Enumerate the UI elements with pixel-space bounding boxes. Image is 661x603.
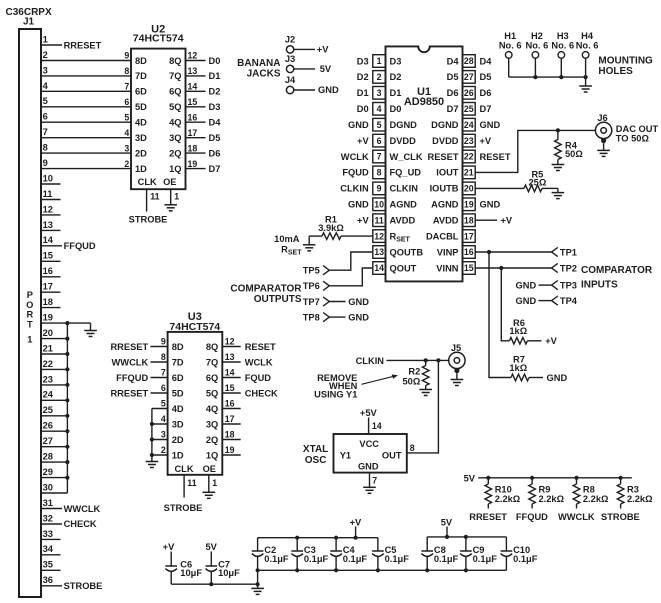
svg-text:D1: D1 (390, 88, 402, 98)
svg-text:AGND: AGND (431, 200, 459, 210)
svg-text:15: 15 (188, 97, 198, 107)
svg-text:5D: 5D (135, 102, 147, 112)
svg-text:5: 5 (377, 120, 382, 130)
svg-text:MOUNTING: MOUNTING (598, 55, 653, 66)
wire Y1 OUT pin 8 to CLKIN (407, 360, 439, 453)
svg-text:4Q: 4Q (169, 118, 181, 128)
svg-text:1kΩ: 1kΩ (509, 363, 527, 373)
svg-text:7: 7 (372, 475, 377, 485)
svg-text:AGND: AGND (390, 200, 418, 210)
svg-text:D7: D7 (480, 104, 492, 114)
svg-text:8: 8 (43, 143, 48, 153)
svg-text:10μF: 10μF (180, 568, 202, 578)
svg-text:7D: 7D (135, 71, 147, 81)
svg-text:GND: GND (348, 313, 369, 323)
net label 5V (J3) (320, 64, 332, 74)
svg-text:18: 18 (43, 297, 53, 307)
svg-text:15: 15 (464, 263, 474, 273)
svg-text:1: 1 (377, 56, 382, 66)
svg-text:6: 6 (124, 97, 129, 107)
svg-text:RRESET: RRESET (469, 512, 507, 522)
svg-text:28: 28 (464, 56, 474, 66)
net label CHECK (J1 pin 32) (64, 519, 97, 529)
svg-text:14: 14 (43, 235, 54, 245)
svg-text:0.1μF: 0.1μF (343, 554, 368, 564)
svg-text:WCLK: WCLK (341, 152, 369, 162)
svg-text:D6: D6 (209, 148, 221, 158)
test point TP4 (516, 296, 578, 306)
svg-text:12: 12 (225, 337, 235, 347)
svg-text:2D: 2D (135, 148, 147, 158)
U3 pin 1 OE stub (209, 475, 217, 493)
U2 internal pin names (135, 56, 182, 187)
svg-text:15: 15 (225, 383, 235, 393)
svg-text:D5: D5 (209, 133, 221, 143)
capacitor C7 10uF (206, 552, 241, 585)
svg-text:14: 14 (372, 421, 382, 431)
svg-text:DGND: DGND (390, 120, 418, 130)
svg-text:0.1μF: 0.1μF (385, 554, 410, 564)
svg-text:J3: J3 (285, 54, 295, 64)
svg-text:10μF: 10μF (218, 568, 240, 578)
U2 input pin numbers 9-2 (124, 51, 129, 169)
svg-text:DVDD: DVDD (432, 136, 459, 146)
resistor R4 50ohm (555, 130, 584, 164)
U1 internal pin names (390, 56, 460, 273)
U2 74HCT574 body (131, 49, 186, 190)
svg-text:7: 7 (161, 368, 166, 378)
svg-text:0.1μF: 0.1μF (264, 554, 289, 564)
wire ground bus J1 pins 19-30 (41, 321, 70, 493)
svg-text:21: 21 (464, 168, 474, 178)
svg-text:3D: 3D (172, 419, 184, 429)
net label RESET (U3) (245, 342, 276, 352)
svg-text:13: 13 (374, 247, 384, 257)
svg-text:19: 19 (225, 445, 235, 455)
svg-text:2: 2 (161, 445, 166, 455)
svg-text:RRESET: RRESET (110, 388, 148, 398)
svg-text:CLK: CLK (138, 177, 157, 187)
svg-text:GND: GND (348, 297, 369, 307)
ground (bypass caps) (251, 584, 264, 594)
ground (mounting holes) (579, 77, 592, 92)
svg-text:10mA: 10mA (274, 234, 300, 244)
svg-text:TP7: TP7 (303, 297, 320, 307)
svg-text:3Q: 3Q (206, 419, 218, 429)
svg-text:D7: D7 (209, 164, 221, 174)
capacitor C6 10uF (165, 552, 202, 585)
svg-text:4D: 4D (172, 404, 184, 414)
net label GND (U1 pin 24) (480, 120, 501, 130)
svg-text:GND: GND (547, 373, 568, 383)
net label +V (J2) (317, 45, 329, 55)
svg-text:3: 3 (377, 88, 382, 98)
section label BANANA JACKS (237, 58, 281, 80)
svg-text:6: 6 (161, 383, 166, 393)
svg-text:XTAL: XTAL (303, 444, 328, 455)
svg-text:0.1μF: 0.1μF (473, 554, 498, 564)
svg-text:VINN: VINN (436, 263, 458, 273)
svg-text:+V: +V (545, 336, 557, 346)
svg-text:16: 16 (225, 399, 235, 409)
svg-text:3: 3 (43, 65, 48, 75)
U2 pin 11 CLK stub (147, 189, 160, 211)
svg-text:34: 34 (43, 544, 54, 554)
svg-text:WCLK: WCLK (245, 357, 273, 367)
net label RRESET (R10) (469, 512, 507, 522)
resistor R6 1k to +V (501, 268, 557, 346)
net label WWCLK (R8) (558, 512, 595, 522)
svg-text:TP5: TP5 (303, 266, 320, 276)
svg-text:DVDD: DVDD (390, 136, 417, 146)
svg-text:FFQUD: FFQUD (64, 241, 96, 251)
wire CLKIN to J5 (387, 358, 449, 362)
net label GND (J4) (318, 85, 339, 95)
resistor R8 2.2k (573, 478, 609, 509)
svg-text:10: 10 (43, 173, 53, 183)
svg-text:VCC: VCC (359, 439, 379, 449)
capacitor C8 0.1uF (421, 537, 458, 570)
svg-text:18: 18 (225, 430, 235, 440)
svg-text:No. 6: No. 6 (551, 40, 574, 50)
section label MOUNTING HOLES (598, 55, 653, 77)
svg-text:W_CLK: W_CLK (390, 152, 423, 162)
svg-text:11: 11 (43, 189, 53, 199)
svg-text:D2: D2 (357, 72, 369, 82)
svg-text:RRESET: RRESET (64, 40, 102, 50)
wires U3 inputs RRESET WWCLK FFQUD RRESET (110, 342, 167, 399)
svg-text:14: 14 (188, 82, 198, 92)
svg-text:3D: 3D (135, 133, 147, 143)
svg-text:CLKIN: CLKIN (340, 184, 369, 194)
svg-text:+5V: +5V (360, 408, 378, 418)
svg-text:CLKIN: CLKIN (390, 184, 419, 194)
net label FFQUD (R9) (516, 512, 548, 522)
svg-text:+V: +V (357, 216, 369, 226)
svg-text:12: 12 (188, 51, 198, 61)
svg-text:GND: GND (480, 120, 501, 130)
svg-text:15: 15 (43, 251, 53, 261)
svg-text:D5: D5 (447, 72, 459, 82)
svg-text:6: 6 (377, 136, 382, 146)
wire mounting hole bus (509, 75, 588, 79)
svg-text:6D: 6D (172, 373, 184, 383)
svg-text:36: 36 (43, 575, 53, 585)
svg-text:J2: J2 (285, 34, 295, 44)
svg-text:TO 50Ω: TO 50Ω (616, 133, 650, 143)
svg-text:CLK: CLK (174, 464, 193, 474)
svg-text:OE: OE (203, 464, 216, 474)
svg-text:18: 18 (464, 215, 474, 225)
svg-text:FFQUD: FFQUD (116, 373, 148, 383)
svg-text:1D: 1D (172, 450, 184, 460)
svg-text:23: 23 (464, 136, 474, 146)
svg-text:5D: 5D (172, 388, 184, 398)
ground (J5) (451, 373, 464, 385)
svg-text:2Q: 2Q (206, 435, 218, 445)
svg-text:33: 33 (43, 529, 53, 539)
wire +V top rail (258, 527, 378, 540)
svg-text:16: 16 (464, 247, 474, 257)
svg-text:13: 13 (225, 352, 235, 362)
svg-text:8Q: 8Q (206, 342, 218, 352)
svg-text:R: R (26, 310, 33, 320)
net label +V (C2-C5 rail) (350, 517, 362, 527)
svg-text:2: 2 (43, 50, 48, 60)
svg-text:RRESET: RRESET (110, 342, 148, 352)
svg-text:3: 3 (124, 143, 129, 153)
svg-text:OE: OE (163, 177, 176, 187)
section label COMPARATOR INPUTS (581, 265, 653, 291)
svg-text:24: 24 (43, 390, 54, 400)
wire U1 pin 21 IOUT to J6 (475, 128, 595, 172)
svg-text:USING Y1: USING Y1 (314, 389, 357, 399)
resistor R2 50ohm (403, 360, 429, 389)
svg-text:1kΩ: 1kΩ (509, 326, 527, 336)
connector J1 pin stubs and pin numbers 1-36 (41, 34, 62, 585)
wire caps bottom rail (258, 568, 507, 572)
svg-text:6Q: 6Q (169, 87, 181, 97)
svg-text:20: 20 (464, 184, 474, 194)
svg-text:3: 3 (161, 430, 166, 440)
U2 pin 1 OE stub (171, 189, 180, 205)
svg-text:25Ω: 25Ω (529, 177, 547, 187)
svg-text:13: 13 (188, 66, 198, 76)
svg-text:AVDD: AVDD (390, 216, 416, 226)
svg-text:2.2kΩ: 2.2kΩ (627, 494, 653, 504)
svg-text:26: 26 (464, 88, 474, 98)
svg-text:20: 20 (43, 328, 53, 338)
svg-text:D4: D4 (447, 56, 460, 66)
svg-text:GND: GND (516, 296, 537, 306)
svg-text:COMPARATOR: COMPARATOR (581, 265, 653, 276)
U2 output stubs pins 12-19 (186, 51, 206, 169)
svg-text:32: 32 (43, 513, 53, 523)
net label STROBE (J1 pin 36) (64, 581, 103, 591)
svg-text:CHECK: CHECK (64, 519, 97, 529)
svg-text:STROBE: STROBE (164, 503, 203, 513)
svg-text:4: 4 (124, 128, 129, 138)
svg-text:WWCLK: WWCLK (558, 512, 595, 522)
svg-text:DGND: DGND (431, 120, 459, 130)
svg-text:FFQUD: FFQUD (516, 512, 548, 522)
svg-text:0.1μF: 0.1μF (304, 554, 329, 564)
svg-text:6Q: 6Q (206, 373, 218, 383)
svg-text:30: 30 (43, 482, 53, 492)
U3 input pin numbers 9-2 (161, 337, 166, 456)
svg-text:JACKS: JACKS (247, 69, 281, 80)
capacitor C10 0.1uF (501, 537, 538, 570)
svg-text:4Q: 4Q (206, 404, 218, 414)
svg-text:5Q: 5Q (206, 388, 218, 398)
svg-text:16: 16 (43, 266, 53, 276)
ground (R4) (552, 165, 565, 171)
svg-text:+V: +V (317, 45, 329, 55)
svg-text:25: 25 (43, 405, 53, 415)
svg-text:3.9kΩ: 3.9kΩ (318, 223, 344, 233)
svg-text:D3: D3 (357, 56, 369, 66)
svg-text:50Ω: 50Ω (403, 376, 421, 386)
svg-text:31: 31 (43, 498, 53, 508)
svg-text:12: 12 (43, 204, 53, 214)
wire C6 C7 ground rail (171, 582, 260, 586)
net label 5V (C8-C10 rail) (441, 517, 453, 527)
svg-text:+V: +V (163, 542, 175, 552)
svg-text:11: 11 (150, 191, 159, 201)
svg-text:9: 9 (43, 158, 48, 168)
net label STROBE (U2 CLK) (129, 215, 168, 225)
net label +V (C6) (163, 542, 175, 552)
U3 pin 11 CLK stub (184, 475, 197, 498)
svg-text:5V: 5V (464, 473, 476, 483)
svg-text:D0: D0 (357, 104, 369, 114)
svg-text:7D: 7D (172, 357, 184, 367)
svg-text:GND: GND (516, 280, 537, 290)
svg-text:17: 17 (188, 128, 198, 138)
svg-text:GND: GND (348, 120, 369, 130)
svg-text:D7: D7 (447, 104, 459, 114)
ground (J1 bus) (67, 323, 96, 336)
svg-text:TP4: TP4 (560, 296, 578, 306)
svg-text:17: 17 (43, 282, 53, 292)
svg-text:24: 24 (464, 120, 474, 130)
svg-text:22: 22 (43, 359, 53, 369)
svg-text:D0: D0 (209, 56, 221, 66)
svg-text:9: 9 (161, 337, 166, 347)
svg-text:28: 28 (43, 452, 53, 462)
svg-text:J1: J1 (23, 17, 35, 28)
net label WWCLK (J1 pin 31) (64, 504, 101, 514)
svg-text:FQ_UD: FQ_UD (390, 168, 422, 178)
svg-text:8: 8 (377, 168, 382, 178)
svg-text:5: 5 (124, 113, 129, 123)
svg-text:FQUD: FQUD (342, 168, 369, 178)
svg-text:GND: GND (358, 462, 379, 472)
svg-text:+V: +V (350, 517, 362, 527)
svg-text:7: 7 (124, 82, 129, 92)
net label STROBE (R3) (601, 512, 640, 522)
svg-text:4: 4 (43, 81, 49, 91)
test point TP1 (VINP) (475, 247, 577, 257)
svg-text:5: 5 (161, 399, 166, 409)
svg-text:D6: D6 (480, 88, 492, 98)
svg-text:OSC: OSC (305, 455, 327, 466)
svg-text:25: 25 (464, 104, 474, 114)
banana jack J2 (285, 34, 315, 53)
svg-text:27: 27 (43, 436, 53, 446)
svg-text:4: 4 (161, 414, 166, 424)
svg-text:19: 19 (43, 313, 53, 323)
svg-text:8: 8 (410, 443, 415, 453)
svg-text:D3: D3 (390, 56, 402, 66)
svg-text:11: 11 (187, 478, 196, 488)
svg-text:QOUTB: QOUTB (390, 247, 424, 257)
svg-text:27: 27 (464, 72, 474, 82)
svg-text:6D: 6D (135, 87, 147, 97)
banana jack J3 (285, 54, 315, 73)
svg-text:2.2kΩ: 2.2kΩ (583, 494, 609, 504)
svg-text:5V: 5V (320, 64, 332, 74)
wire U1 pin 18 stub and +V label (475, 216, 513, 226)
net label D4 (U1 pin 28) (480, 56, 493, 66)
wire 5V pull-up rail (478, 476, 632, 480)
svg-text:2Q: 2Q (169, 148, 181, 158)
svg-text:2: 2 (124, 159, 129, 169)
svg-text:9: 9 (124, 51, 129, 61)
svg-text:CHECK: CHECK (245, 388, 278, 398)
resistor R9 2.2k (529, 478, 565, 509)
net label D7 (U1 pin 25) (480, 104, 492, 114)
svg-text:No. 6: No. 6 (499, 40, 522, 50)
svg-text:1: 1 (43, 34, 48, 44)
resistor R5 25ohm (475, 170, 558, 192)
op-amp U1 AD9850 body (386, 46, 463, 281)
svg-text:WWCLK: WWCLK (112, 357, 149, 367)
svg-text:7: 7 (43, 127, 48, 137)
svg-text:16: 16 (188, 113, 198, 123)
svg-text:BANANA: BANANA (237, 58, 280, 69)
wire bypass rail riser (256, 568, 260, 584)
svg-text:17: 17 (225, 414, 235, 424)
capacitor C5 0.1uF (372, 538, 409, 571)
net label STROBE (U3 CLK) (164, 503, 203, 513)
svg-text:8D: 8D (135, 56, 147, 66)
U3 label (169, 311, 220, 333)
svg-text:14: 14 (374, 263, 384, 273)
svg-text:TP1: TP1 (560, 247, 577, 257)
svg-text:19: 19 (464, 200, 474, 210)
svg-text:D1: D1 (357, 88, 369, 98)
svg-text:AVDD: AVDD (433, 216, 459, 226)
svg-text:6: 6 (43, 112, 48, 122)
resistor R3 2.2k (617, 478, 653, 509)
svg-text:0.1μF: 0.1μF (434, 554, 459, 564)
wire U3 unused inputs tied to ground (150, 409, 168, 462)
net label FQUD (U3) (245, 373, 272, 383)
label XTAL OSC (303, 444, 328, 466)
connector J1 PORT 1 label (26, 290, 33, 344)
svg-text:INPUTS: INPUTS (581, 279, 618, 290)
svg-text:TP3: TP3 (560, 280, 577, 290)
ground (R5) (552, 188, 565, 198)
test point TP3 (516, 280, 577, 290)
net label FFQUD (J1 pin 14) (64, 241, 96, 251)
svg-text:TP8: TP8 (303, 313, 320, 323)
U1 pin number boxes 28-15 (463, 55, 476, 275)
svg-text:STROBE: STROBE (64, 581, 103, 591)
svg-text:IOUTB: IOUTB (430, 184, 459, 194)
svg-text:74HCT574: 74HCT574 (133, 33, 184, 45)
net label RRESET (J1 pin 1) (64, 40, 102, 50)
svg-text:D2: D2 (390, 72, 402, 82)
crystal oscillator Y1 body (334, 434, 407, 473)
net label +5V (Y1) (360, 408, 378, 418)
test point TP2 (VINN) (475, 263, 577, 273)
svg-text:D1: D1 (209, 71, 221, 81)
svg-text:TP6: TP6 (303, 281, 320, 291)
ground (U2 OE) (164, 205, 177, 211)
svg-text:STROBE: STROBE (129, 215, 168, 225)
test point TP8 (303, 313, 370, 323)
svg-text:35: 35 (43, 560, 53, 570)
section label COMPARATOR OUTPUTS (230, 283, 302, 305)
svg-text:8: 8 (161, 352, 166, 362)
ground (R1) (303, 236, 316, 251)
resistor R10 2.2k (485, 478, 521, 509)
label DAC OUT TO 50ohm (616, 124, 659, 143)
net labels D0-D7 (U2 outputs) (209, 56, 222, 174)
svg-text:+V: +V (501, 216, 513, 226)
